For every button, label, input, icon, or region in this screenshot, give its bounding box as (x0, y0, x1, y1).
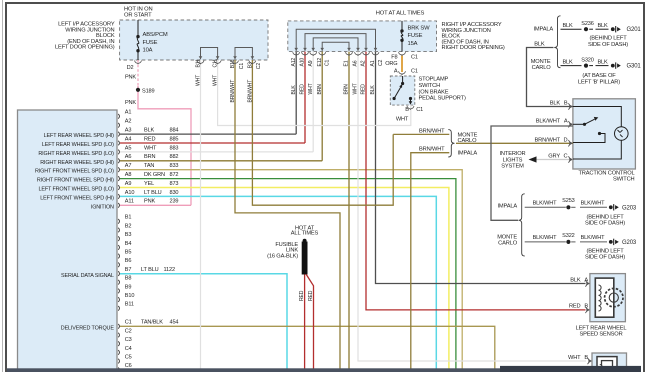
svg-text:LEFT REAR WHEEL SPD (LO): LEFT REAR WHEEL SPD (LO) (42, 142, 114, 148)
page frame left thin line (2, 0, 4, 372)
svg-text:BLK: BLK (597, 23, 608, 29)
junction staple B11-C11 (201, 48, 218, 60)
EBCM pin B4 connector (118, 245, 119, 250)
svg-text:WHT: WHT (195, 75, 201, 86)
connector brace right block exit x=375.5 (372, 52, 379, 56)
svg-text:S320: S320 (581, 58, 594, 64)
EBCM pin C6 connector (118, 368, 119, 372)
svg-text:D: D (564, 137, 568, 143)
svg-text:C3: C3 (125, 337, 132, 343)
svg-text:239: 239 (170, 199, 179, 205)
svg-text:A2: A2 (125, 119, 132, 125)
svg-text:BLK: BLK (562, 23, 573, 29)
svg-text:G203: G203 (622, 240, 637, 246)
EBCM pin B5 connector (118, 254, 119, 259)
wire WHT 883 A5 (120, 151, 313, 153)
EBCM pin B8 connector (118, 280, 119, 285)
EBCM pin A5 connector (118, 150, 119, 155)
wire BLK/WHT to S322 (525, 241, 566, 243)
svg-text:B3: B3 (247, 62, 253, 68)
svg-text:BLK: BLK (370, 85, 376, 95)
svg-text:ABS/PCM: ABS/PCM (143, 32, 168, 38)
svg-text:882: 882 (170, 154, 179, 160)
wire BLK S320 seg (589, 65, 593, 67)
wire BLK/WHT S322 to G203 lower (580, 241, 607, 243)
wire BRN 882 A6 (120, 160, 322, 162)
EBCM pin C1 connector (118, 324, 119, 329)
wire BLK 884 A3 (120, 133, 296, 135)
svg-text:B5: B5 (125, 250, 132, 256)
junction staple A12-A1 (296, 29, 375, 51)
svg-text:E12: E12 (317, 58, 323, 67)
svg-text:C1: C1 (125, 320, 132, 326)
svg-text:WHT: WHT (213, 75, 219, 86)
wire PNK 239 ignition A11 (120, 204, 191, 206)
svg-text:B4: B4 (125, 241, 132, 247)
svg-text:B: B (405, 107, 409, 113)
wire RED second from fusible link to crop edge (306, 274, 313, 368)
wire BLK/WHT S322 seg (571, 241, 575, 243)
wire BLK/WHT to S253 (525, 206, 566, 208)
svg-text:BRK SW: BRK SW (408, 26, 431, 32)
bottom module bar left (cut off) (7, 368, 500, 372)
wire RED riser A10 to A4 row (304, 52, 306, 143)
svg-text:A2: A2 (361, 60, 367, 66)
svg-text:C1: C1 (411, 54, 418, 60)
svg-text:B10: B10 (230, 59, 236, 68)
svg-text:LIGHTS: LIGHTS (503, 157, 523, 163)
svg-text:SIDE OF DASH): SIDE OF DASH) (588, 42, 628, 48)
splice S322 (566, 240, 570, 244)
wire TAN/BLK 454 delivered torque C1 (120, 326, 495, 368)
svg-text:A10: A10 (300, 58, 306, 67)
connector brace left block exit x=252.4 (249, 61, 256, 65)
brace monte carlo/impala BRN-WHT merge (448, 130, 454, 157)
EBCM pin C5 connector (118, 359, 119, 364)
EBCM pin A8 connector (118, 176, 119, 181)
svg-text:B8: B8 (125, 276, 132, 282)
svg-text:A9: A9 (125, 181, 132, 187)
connector brace left block exit x=200.5 (197, 61, 204, 65)
EBCM pin B7 connector (118, 271, 119, 276)
junction staple A9-A6 (313, 38, 358, 51)
EBCM pin A2 connector (118, 123, 119, 128)
ground G203 lower (609, 240, 613, 244)
svg-text:TRACTION CONTROL: TRACTION CONTROL (578, 171, 634, 177)
connector brace right block exit x=305 (302, 52, 309, 56)
svg-text:B11: B11 (125, 302, 134, 308)
connector brace right block exit x=349 (346, 52, 353, 56)
svg-text:RED: RED (361, 84, 367, 95)
wire ORG F8 to stoplamp A (401, 56, 403, 72)
svg-text:RIGHT REAR WHEEL SPD (LO): RIGHT REAR WHEEL SPD (LO) (38, 151, 114, 157)
svg-text:A: A (564, 118, 568, 124)
EBCM pin A1 connector (118, 114, 119, 119)
svg-text:C1: C1 (416, 107, 423, 113)
svg-text:OR START: OR START (124, 13, 152, 19)
svg-text:C4: C4 (125, 346, 132, 352)
wire GRY traction switch C to interior lights (536, 159, 573, 161)
wire BLK S236 to G201 (596, 28, 609, 30)
wire BLK to S320 (561, 65, 582, 67)
EBCM pin A7 connector (118, 167, 119, 172)
EBCM pin B1 connector (118, 219, 119, 224)
splice S253 (566, 205, 570, 209)
svg-text:STOPLAMP: STOPLAMP (419, 77, 449, 83)
svg-text:S236: S236 (581, 21, 594, 27)
svg-text:C1: C1 (411, 68, 418, 74)
svg-text:FUSE: FUSE (143, 40, 158, 46)
connector brace right block exit x=322.2 (319, 52, 326, 56)
svg-text:A12: A12 (291, 58, 297, 67)
svg-text:LT BLU: LT BLU (141, 267, 159, 273)
svg-text:BLK/WHT: BLK/WHT (581, 201, 606, 207)
EBCM module box (18, 110, 118, 372)
stoplamp switch internals (402, 76, 404, 84)
svg-text:A11: A11 (125, 199, 134, 205)
ground G301 (611, 64, 615, 68)
svg-text:HOT AT ALL TIMES: HOT AT ALL TIMES (376, 10, 425, 16)
svg-text:FUSE: FUSE (408, 33, 423, 39)
svg-text:LEFT 'B' PILLAR): LEFT 'B' PILLAR) (578, 80, 620, 86)
svg-text:A9: A9 (308, 60, 314, 66)
svg-text:RIGHT FRONT WHEEL SPD (LO): RIGHT FRONT WHEEL SPD (LO) (35, 169, 114, 175)
traction switch pin A connector (568, 121, 570, 127)
svg-text:A5: A5 (125, 145, 132, 151)
svg-text:B11: B11 (195, 59, 201, 68)
svg-text:IGNITION: IGNITION (91, 204, 114, 210)
svg-text:SERIAL DATA SIGNAL: SERIAL DATA SIGNAL (61, 273, 114, 279)
wire BRN/WHT B3 to monte carlo riser (252, 60, 393, 205)
EBCM pin B3 connector (118, 236, 119, 241)
wire BRN E1 down to crop edge (348, 52, 350, 369)
sensor 2 pin B connector (588, 358, 590, 364)
EBCM pin A3 connector (118, 132, 119, 137)
left rear sensor internals (595, 278, 614, 317)
svg-text:D2: D2 (127, 65, 134, 71)
EBCM pin C2 connector (118, 333, 119, 338)
svg-text:A4: A4 (125, 136, 132, 142)
svg-text:454: 454 (170, 320, 179, 326)
wire RED A2 down to left rear sensor pin B (366, 52, 586, 310)
traction switch pin C connector (568, 156, 570, 162)
svg-text:833: 833 (170, 163, 179, 169)
ground G203 upper (609, 205, 613, 209)
svg-text:G203: G203 (622, 205, 637, 211)
svg-text:BLK: BLK (550, 101, 561, 107)
svg-text:PNK: PNK (125, 75, 136, 81)
BRK SW fuse supply stub (401, 21, 403, 31)
svg-text:C: C (564, 154, 568, 160)
wire WHT riser A9 to A5 row (312, 52, 314, 152)
svg-text:C2: C2 (125, 328, 132, 334)
wire BLK riser A12 to A3 row (295, 52, 297, 135)
svg-text:10A: 10A (143, 47, 153, 53)
wire fuse to D2 exit (137, 51, 139, 60)
bottom module bar right (cut off) (500, 366, 641, 372)
svg-text:A: A (394, 68, 398, 74)
svg-text:885: 885 (170, 136, 179, 142)
svg-text:G301: G301 (627, 64, 642, 70)
svg-text:TAN/BLK: TAN/BLK (141, 320, 163, 326)
svg-text:RED: RED (144, 136, 155, 142)
connector brace right block exit x=313.2 (310, 52, 317, 56)
svg-text:A10: A10 (125, 190, 135, 196)
svg-text:BLK: BLK (291, 85, 297, 95)
svg-text:CARLO: CARLO (498, 240, 518, 246)
svg-text:B2: B2 (125, 223, 132, 229)
connector brace stoplamp B exit (407, 106, 414, 110)
connector brace stoplamp A entry (399, 71, 406, 75)
right I/P junction block box (288, 21, 437, 52)
junction staple B10-B3 (235, 48, 252, 60)
splice S236 (584, 27, 588, 31)
EBCM pin B10 connector (118, 297, 119, 302)
EBCM pin C4 connector (118, 350, 119, 355)
svg-text:DELIVERED TORQUE: DELIVERED TORQUE (61, 325, 115, 331)
EBCM pin A9 connector (118, 185, 119, 190)
brace impala/monte carlo BLK/WHT grounds (519, 194, 525, 256)
svg-text:INTERIOR: INTERIOR (500, 151, 526, 157)
sensor pin A connector (585, 280, 587, 286)
wire WHT A6 down to right wheel sensor (358, 52, 586, 361)
svg-text:BRN: BRN (344, 84, 350, 95)
svg-text:BRN: BRN (317, 84, 323, 95)
connector brace D2 exit (135, 61, 142, 65)
traction control switch box (573, 99, 636, 169)
svg-text:(ON BRAKE: (ON BRAKE (419, 89, 449, 95)
EBCM pin C3 connector (118, 341, 119, 346)
svg-text:BLK/WHT: BLK/WHT (536, 118, 561, 124)
svg-text:RED: RED (300, 84, 306, 95)
svg-text:GRY: GRY (548, 154, 560, 160)
svg-text:C1: C1 (239, 63, 245, 70)
svg-text:B3: B3 (125, 232, 132, 238)
wire RED from fusible link to crop edge (304, 274, 306, 368)
EBCM pin A10 connector (118, 194, 119, 199)
svg-text:BLK: BLK (597, 60, 608, 66)
wire LT BLU 1122 serial data B7 (120, 274, 287, 369)
svg-text:(BEHIND LEFT: (BEHIND LEFT (589, 36, 627, 42)
svg-text:SIDE OF DASH): SIDE OF DASH) (585, 221, 625, 227)
traction switch pin B connector (568, 103, 570, 109)
svg-text:RIGHT DOOR OPENING): RIGHT DOOR OPENING) (442, 45, 505, 51)
svg-text:872: 872 (170, 172, 179, 178)
svg-text:B10: B10 (125, 293, 135, 299)
wire BLK S320 to G301 (596, 65, 609, 67)
ABS/PCM fuse supply stub (137, 20, 139, 37)
svg-text:IMPALA: IMPALA (458, 151, 478, 157)
svg-text:BRN/WHT: BRN/WHT (230, 80, 236, 103)
wire YEL 873 A9 (120, 188, 449, 369)
svg-text:BLK/WHT: BLK/WHT (581, 235, 606, 241)
wire fuse to F8 exit (401, 40, 403, 51)
stoplamp switch box (390, 76, 415, 105)
svg-text:BRN/WHT: BRN/WHT (535, 137, 561, 143)
svg-text:C5: C5 (125, 355, 132, 361)
EBCM pin A6 connector (118, 159, 119, 164)
wire BLK to S236 (561, 28, 582, 30)
svg-text:830: 830 (170, 190, 179, 196)
svg-text:BRN/WHT: BRN/WHT (247, 80, 253, 103)
svg-text:TAN: TAN (144, 163, 154, 169)
svg-text:G201: G201 (627, 27, 642, 33)
wire BLK S236 seg (589, 28, 593, 30)
svg-text:A6: A6 (125, 154, 132, 160)
svg-text:A3: A3 (125, 128, 132, 134)
connector brace right block exit x=296.2 (293, 52, 300, 56)
svg-text:BLK: BLK (534, 42, 545, 48)
svg-text:WHT: WHT (568, 355, 581, 361)
svg-text:IMPALA: IMPALA (533, 26, 553, 32)
svg-text:BLK/WHT: BLK/WHT (533, 235, 558, 241)
svg-text:LEFT DOOR OPENING): LEFT DOOR OPENING) (55, 45, 115, 51)
svg-text:PEDAL SUPPORT): PEDAL SUPPORT) (419, 96, 466, 102)
svg-text:B7: B7 (125, 267, 132, 273)
wire BRN/WHT monte carlo branch to brace (393, 133, 449, 135)
svg-text:SPEED SENSOR: SPEED SENSOR (579, 332, 622, 338)
svg-text:B9: B9 (125, 284, 132, 290)
ground G201 (611, 27, 615, 31)
svg-text:C2: C2 (378, 59, 384, 66)
splice S320 (584, 64, 588, 68)
wire WHT B11 down to crop edge (200, 60, 202, 369)
svg-text:RIGHT REAR WHEEL SPD (HI): RIGHT REAR WHEEL SPD (HI) (40, 160, 114, 166)
svg-text:883: 883 (170, 145, 179, 151)
svg-text:LEFT FRONT WHEEL SPD (HI): LEFT FRONT WHEEL SPD (HI) (40, 195, 114, 201)
svg-text:PNK: PNK (125, 100, 136, 106)
wire TAN 833 A7 (120, 170, 462, 369)
svg-text:15A: 15A (408, 41, 418, 47)
svg-text:BRN/WHT: BRN/WHT (419, 147, 445, 153)
connector brace left block exit x=235 (232, 61, 239, 65)
svg-text:CARLO: CARLO (532, 65, 552, 71)
traction switch internals (573, 107, 621, 160)
traction switch pin D connector (568, 140, 570, 146)
svg-text:LEFT REAR WHEEL SPD (HI): LEFT REAR WHEEL SPD (HI) (44, 133, 114, 139)
wire LT BLU 830 A10 (120, 196, 436, 368)
svg-text:B6: B6 (125, 258, 132, 264)
svg-text:B1: B1 (125, 215, 132, 221)
svg-text:ORG: ORG (385, 61, 397, 67)
svg-text:A1: A1 (370, 60, 376, 66)
svg-text:1122: 1122 (164, 267, 175, 273)
svg-text:BLK: BLK (144, 128, 155, 134)
svg-text:WHT: WHT (308, 83, 314, 94)
svg-text:DK GRN: DK GRN (144, 172, 165, 178)
wire BRN/WHT impala riser from crop edge (411, 153, 450, 369)
wire BLK A1 down to left rear sensor pin A (376, 52, 586, 284)
svg-text:BRN: BRN (144, 154, 155, 160)
wire BRN/WHT B10 down and right to crop edge (235, 60, 340, 369)
EBCM pin B9 connector (118, 289, 119, 294)
svg-text:F8: F8 (391, 54, 397, 60)
wire BLK/WHT S253 to G203 (580, 206, 607, 208)
svg-text:S253: S253 (562, 198, 575, 204)
sensor pin B connector (585, 307, 587, 313)
svg-text:RED: RED (308, 290, 314, 301)
svg-text:BRN/WHT: BRN/WHT (419, 128, 445, 134)
EBCM pin A11 connector (118, 203, 119, 208)
svg-text:LEFT REAR WHEEL: LEFT REAR WHEEL (576, 326, 627, 332)
wire WHT C11 to stoplamp switch B (218, 60, 411, 126)
svg-text:E1: E1 (344, 60, 350, 66)
svg-text:SWITCH: SWITCH (613, 177, 635, 183)
svg-text:BLK/WHT: BLK/WHT (533, 201, 558, 207)
svg-text:SWITCH: SWITCH (419, 83, 441, 89)
connector brace left block exit x=217.6 (214, 61, 221, 65)
second sensor internals (597, 357, 617, 372)
svg-text:RED: RED (299, 290, 305, 301)
wire BLK traction switch B to ground brace (527, 48, 573, 107)
svg-text:LEFT FRONT WHEEL SPD (LO): LEFT FRONT WHEEL SPD (LO) (38, 187, 114, 193)
svg-text:C2: C2 (256, 63, 262, 70)
svg-text:(16 GA-BLK): (16 GA-BLK) (267, 254, 298, 260)
EBCM pin B6 connector (118, 263, 119, 268)
svg-text:A8: A8 (125, 172, 132, 178)
svg-text:S189: S189 (142, 88, 155, 94)
wire BLK/WHT traction switch A to S253 brace (491, 126, 573, 220)
fuse ABS/PCM 10A (136, 35, 139, 38)
svg-text:SYSTEM: SYSTEM (501, 164, 524, 170)
svg-text:WHT: WHT (396, 117, 409, 123)
interior lights system arrow (529, 156, 537, 162)
svg-text:YEL: YEL (144, 181, 154, 187)
EBCM pin A4 connector (118, 141, 119, 146)
svg-text:(BEHIND LEFT: (BEHIND LEFT (586, 248, 624, 254)
junction staple E12-E1 (322, 42, 349, 51)
svg-text:WHT: WHT (144, 145, 157, 151)
svg-text:SIDE OF DASH): SIDE OF DASH) (585, 255, 625, 261)
svg-text:A7: A7 (125, 163, 132, 169)
svg-text:IMPALA: IMPALA (497, 204, 517, 210)
wire PNK from S189 to ignition riser (138, 86, 191, 205)
svg-text:B: B (564, 101, 568, 107)
wire BLK/WHT S253 seg (571, 206, 575, 208)
svg-text:LT BLU: LT BLU (144, 190, 162, 196)
svg-text:(BEHIND LEFT: (BEHIND LEFT (586, 214, 624, 220)
svg-text:873: 873 (170, 181, 179, 187)
svg-text:BLK: BLK (562, 60, 573, 66)
fusible link element (303, 239, 307, 243)
svg-text:C1: C1 (325, 59, 331, 66)
wire DK GRN 872 A8 (120, 179, 456, 369)
EBCM pin B2 connector (118, 228, 119, 233)
svg-text:S322: S322 (562, 233, 575, 239)
svg-text:C11: C11 (213, 59, 219, 68)
svg-text:A1: A1 (125, 110, 132, 116)
wire PNK dashed from D2 exit (137, 60, 139, 86)
left rear wheel speed sensor box (590, 274, 626, 322)
second wheel speed sensor box (cut off) (592, 353, 627, 372)
svg-text:884: 884 (170, 128, 179, 134)
connector brace right block exit x=366 (363, 52, 370, 56)
left I/P junction block box (120, 20, 268, 60)
svg-text:ALL TIMES: ALL TIMES (291, 231, 319, 237)
svg-text:CARLO: CARLO (458, 138, 478, 144)
svg-text:WHT: WHT (353, 83, 359, 94)
svg-text:RED: RED (569, 304, 581, 310)
wire BRN/WHT traction switch D (456, 142, 573, 144)
svg-text:PNK: PNK (144, 199, 155, 205)
connector brace right block exit x=358 (355, 52, 362, 56)
svg-text:BLK: BLK (570, 277, 581, 283)
brace impala/monte carlo grounds (554, 16, 560, 68)
EBCM pin B11 connector (118, 306, 119, 311)
svg-text:A6: A6 (353, 60, 359, 66)
wire RED 885 A4 (120, 142, 305, 144)
svg-text:(AT BASE OF: (AT BASE OF (582, 73, 616, 79)
